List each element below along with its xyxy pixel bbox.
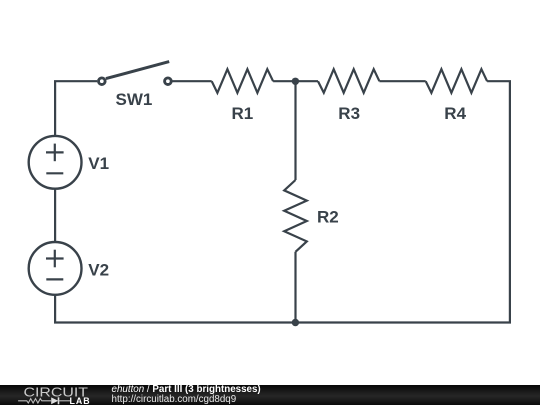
svg-text:LAB: LAB xyxy=(70,396,91,405)
svg-text:R4: R4 xyxy=(444,104,466,123)
svg-text:SW1: SW1 xyxy=(116,90,153,109)
resistor R1 xyxy=(212,69,273,93)
svg-text:R1: R1 xyxy=(232,104,254,123)
node A junction dot xyxy=(292,78,299,85)
resistor R3 xyxy=(318,69,379,93)
logo resistor squiggle xyxy=(18,399,51,403)
wire R4 to top-right corner, down right side, bottom to left corner, up to V2 xyxy=(55,81,510,322)
switch SW1 xyxy=(99,62,172,85)
voltage source V1 xyxy=(29,136,82,189)
footer credit text xyxy=(112,385,261,404)
svg-text:V1: V1 xyxy=(88,154,109,173)
wire R3 to resistor R4 xyxy=(379,80,425,82)
svg-text:R3: R3 xyxy=(338,104,360,123)
node B junction dot xyxy=(292,319,299,326)
wire node A down to R2 xyxy=(294,81,296,180)
wire R2 down to node B on bottom wire xyxy=(294,252,296,323)
footer bar xyxy=(0,385,540,405)
wire top-left: corner to switch SW1 left terminal xyxy=(55,81,97,136)
CircuitLab logo xyxy=(0,385,100,405)
logo diode xyxy=(51,397,58,404)
wire R1 to node A (junction) to resistor R3 xyxy=(273,80,318,82)
wire SW1 right terminal to resistor R1 xyxy=(173,80,212,82)
resistor R4 xyxy=(426,69,487,93)
svg-text:V2: V2 xyxy=(88,261,109,280)
resistor R2 xyxy=(284,180,307,252)
voltage source V2 xyxy=(29,242,82,295)
svg-text:R2: R2 xyxy=(317,208,339,227)
wire V1 to V2 xyxy=(54,189,56,242)
